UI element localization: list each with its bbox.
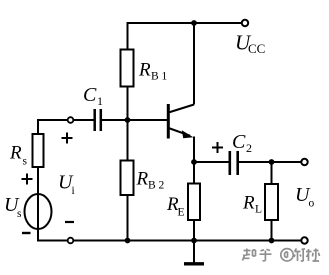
minus sign Us — [22, 232, 31, 234]
wire RB2 bottom stub — [127, 195, 129, 241]
label C1 — [83, 84, 103, 108]
svg-text:E: E — [178, 207, 185, 219]
label RB1 — [138, 60, 168, 83]
wire RE bottom stub — [193, 220, 195, 241]
svg-text:R: R — [242, 193, 255, 214]
resistor RB2 — [121, 161, 134, 196]
minus sign input — [65, 221, 74, 223]
svg-text:R: R — [136, 169, 149, 190]
svg-text:i: i — [72, 185, 75, 197]
label Uo — [295, 184, 315, 210]
wire bottom rail — [37, 240, 305, 242]
svg-text:B 2: B 2 — [148, 180, 165, 192]
label Ucc — [235, 31, 265, 57]
svg-text:L: L — [255, 204, 262, 216]
label C2 — [232, 131, 252, 155]
resistor RL — [265, 184, 278, 220]
wire RL bottom stub — [271, 220, 273, 241]
resistor RB1 — [121, 50, 134, 87]
source Us circle — [25, 194, 52, 229]
plus sign Us — [22, 174, 33, 185]
svg-text:2: 2 — [246, 141, 252, 155]
capacitor C2 plates — [230, 151, 238, 175]
terminal output top — [301, 159, 307, 165]
svg-text:1: 1 — [97, 94, 103, 108]
wire left branch top — [37, 119, 39, 134]
junction dot RB2 bottom — [125, 238, 131, 244]
wire collector column — [193, 23, 195, 105]
svg-text:R: R — [138, 60, 151, 81]
wire emitter column — [193, 137, 195, 184]
wire RB2 top stub — [127, 120, 129, 161]
terminal input plus — [68, 117, 74, 123]
plus sign input — [62, 133, 73, 144]
wire top rail — [128, 22, 246, 24]
svg-text:R: R — [9, 143, 22, 164]
svg-text:C: C — [83, 84, 97, 106]
watermark — [243, 249, 320, 262]
transistor Q1 emitter lead — [169, 128, 191, 136]
label RE — [166, 194, 185, 219]
transistor Q1 collector lead — [169, 105, 195, 113]
label Us — [4, 194, 22, 220]
label Rs — [9, 143, 28, 168]
capacitor C1 plates — [95, 109, 101, 131]
wire input top left segment — [38, 119, 94, 121]
wire RB1 bottom stub to base node — [127, 87, 129, 121]
junction dot top rail / collector — [191, 20, 197, 26]
terminal output bottom — [301, 237, 307, 243]
svg-text:C: C — [232, 131, 246, 153]
transistor Q1 emitter arrow — [182, 130, 194, 138]
svg-text:s: s — [17, 208, 22, 220]
junction dot RL top — [269, 159, 275, 165]
junction dot base node — [125, 117, 131, 123]
wire RL top stub — [271, 162, 273, 184]
transistor Q1 base bar — [167, 104, 170, 139]
svg-text:o: o — [309, 198, 315, 210]
label RB2 — [136, 169, 165, 192]
plus sign C2 — [212, 142, 223, 153]
junction dot ground node — [191, 238, 197, 244]
ground — [184, 262, 204, 265]
junction dot RL bottom — [269, 238, 275, 244]
wire C2 to output terminal — [239, 161, 305, 163]
wire emitter node to C2 — [194, 161, 229, 163]
wire base node to transistor base — [102, 119, 167, 121]
ground stem — [193, 241, 195, 263]
label Ui — [58, 172, 75, 198]
wire left branch through source — [37, 167, 39, 241]
terminal Ucc — [242, 20, 248, 26]
terminal input minus — [68, 238, 74, 244]
resistor RE — [188, 184, 200, 221]
label RL — [242, 193, 262, 216]
svg-text:B 1: B 1 — [151, 71, 168, 83]
svg-text:s: s — [23, 156, 28, 168]
resistor Rs — [33, 134, 44, 167]
svg-text:CC: CC — [248, 41, 265, 56]
junction dot emitter node — [191, 159, 197, 165]
wire RB1 top stub — [127, 22, 129, 50]
